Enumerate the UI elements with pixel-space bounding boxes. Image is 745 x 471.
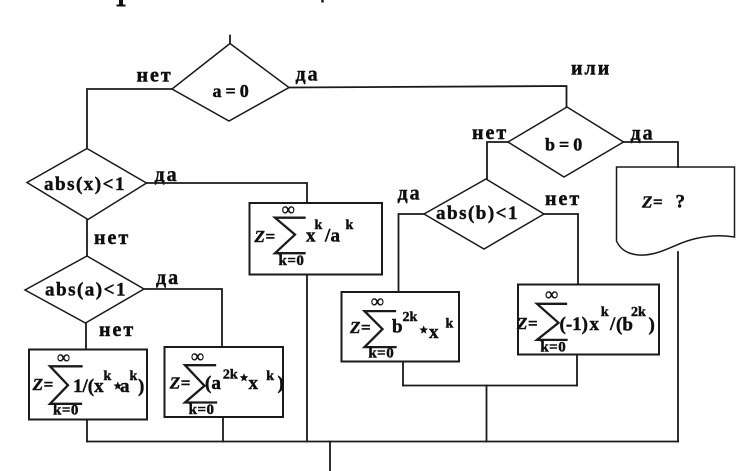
svg-text:(a: (a xyxy=(205,373,221,394)
wire below document xyxy=(677,252,679,442)
svg-text:k=0: k=0 xyxy=(279,253,305,269)
svg-text:/: / xyxy=(609,314,616,335)
svg-text:нет: нет xyxy=(137,65,173,87)
star operator in box A xyxy=(113,381,122,389)
wire below box B xyxy=(222,417,224,442)
decision abs(x)<1 xyxy=(27,149,147,220)
svg-text:k: k xyxy=(346,218,354,233)
wire a=0 нет branch xyxy=(87,89,172,149)
svg-text:Z=: Z= xyxy=(641,193,663,212)
svg-text:k=0: k=0 xyxy=(368,346,394,362)
svg-text:2k: 2k xyxy=(403,310,418,325)
svg-text:k: k xyxy=(601,305,609,320)
decision abs(a)<1 xyxy=(25,256,144,323)
wire abs(x) нет branch xyxy=(86,220,88,257)
wire abs(b) нет branch xyxy=(544,214,578,285)
svg-text:k: k xyxy=(130,369,138,384)
svg-text:нет: нет xyxy=(545,188,581,210)
wire abs(a) нет branch xyxy=(85,323,87,350)
wire b=0 да branch xyxy=(624,142,679,167)
wire output stub xyxy=(329,442,331,471)
svg-text:∞: ∞ xyxy=(191,346,204,366)
wire abs(a) да branch xyxy=(144,289,222,347)
process box B: Z=sum (a^2k*x^k) xyxy=(165,346,284,418)
svg-text:): ) xyxy=(278,373,284,394)
svg-text:да: да xyxy=(156,267,180,289)
svg-text:(-1): (-1) xyxy=(560,314,588,335)
svg-text:2k: 2k xyxy=(223,368,238,383)
svg-text:): ) xyxy=(138,376,144,397)
decision abs(b)<1 xyxy=(424,179,544,249)
svg-text:b: b xyxy=(392,317,403,338)
text fragment top-left xyxy=(117,0,126,7)
svg-text:k=0: k=0 xyxy=(189,402,215,418)
svg-text:Z=: Z= xyxy=(254,227,276,246)
process box D: Z=sum (-1)x^k/(b^2k) xyxy=(516,284,659,356)
wire joining C and D outputs xyxy=(403,385,577,387)
process box A: Z=sum 1/(x^k*a^k) xyxy=(29,347,147,420)
svg-text:a=0: a=0 xyxy=(213,81,253,101)
svg-text:abs(x)<1: abs(x)<1 xyxy=(44,174,126,195)
svg-text:∞: ∞ xyxy=(57,347,70,367)
wire abs(b) да branch xyxy=(399,214,425,292)
svg-text:b=0: b=0 xyxy=(545,135,586,155)
svg-text:x: x xyxy=(429,322,439,343)
text fragment top-middle xyxy=(321,0,323,3)
svg-text:Z=: Z= xyxy=(516,314,538,333)
svg-text:): ) xyxy=(649,315,655,336)
svg-text:k: k xyxy=(266,369,274,384)
svg-text:∞: ∞ xyxy=(371,291,384,311)
svg-text:да: да xyxy=(296,64,320,86)
wire a=0 да branch xyxy=(289,86,567,107)
decision b=0 xyxy=(508,107,624,177)
svg-text:или: или xyxy=(571,58,611,80)
svg-text:Z=: Z= xyxy=(349,318,371,337)
svg-text:1/(x: 1/(x xyxy=(73,376,104,397)
svg-text:a: a xyxy=(120,376,130,397)
svg-text:нет: нет xyxy=(94,227,130,249)
svg-text:∞: ∞ xyxy=(282,199,295,219)
star operator in box C xyxy=(419,325,428,333)
svg-text:?: ? xyxy=(676,192,686,213)
svg-text:a: a xyxy=(331,226,341,247)
svg-text:2k: 2k xyxy=(631,305,646,320)
svg-text:x: x xyxy=(590,314,600,335)
svg-text:abs(a)<1: abs(a)<1 xyxy=(45,280,127,301)
wire stub into a=0 xyxy=(229,36,231,44)
wire below box D xyxy=(576,355,578,386)
wire below box C xyxy=(402,362,404,386)
svg-text:k: k xyxy=(315,218,323,233)
bottom collector wire xyxy=(87,441,678,443)
svg-text:нет: нет xyxy=(99,319,135,341)
svg-text:k=0: k=0 xyxy=(540,340,566,356)
wire below box X xyxy=(306,275,308,442)
wire from C/D join down xyxy=(486,386,488,442)
wire abs(x) да branch xyxy=(147,183,308,203)
star operator in box B xyxy=(240,373,249,381)
wire b=0 нет branch xyxy=(487,142,508,179)
wire below box A xyxy=(86,420,88,442)
process box X: Z=sum x^k/a^k xyxy=(250,199,383,275)
svg-text:abs(b)<1: abs(b)<1 xyxy=(436,203,519,224)
svg-text:k=0: k=0 xyxy=(53,403,79,419)
svg-text:Z=: Z= xyxy=(169,374,191,393)
document Z=? xyxy=(617,167,735,255)
svg-text:∞: ∞ xyxy=(545,284,558,304)
svg-text:x: x xyxy=(249,373,259,394)
process box C: Z=sum b^2k*x^k xyxy=(342,291,460,362)
decision a=0 xyxy=(172,44,289,122)
svg-text:k: k xyxy=(104,369,112,384)
svg-text:да: да xyxy=(398,183,422,205)
svg-text:нет: нет xyxy=(472,122,508,144)
svg-text:Z=: Z= xyxy=(32,375,54,394)
svg-text:k: k xyxy=(446,317,454,332)
